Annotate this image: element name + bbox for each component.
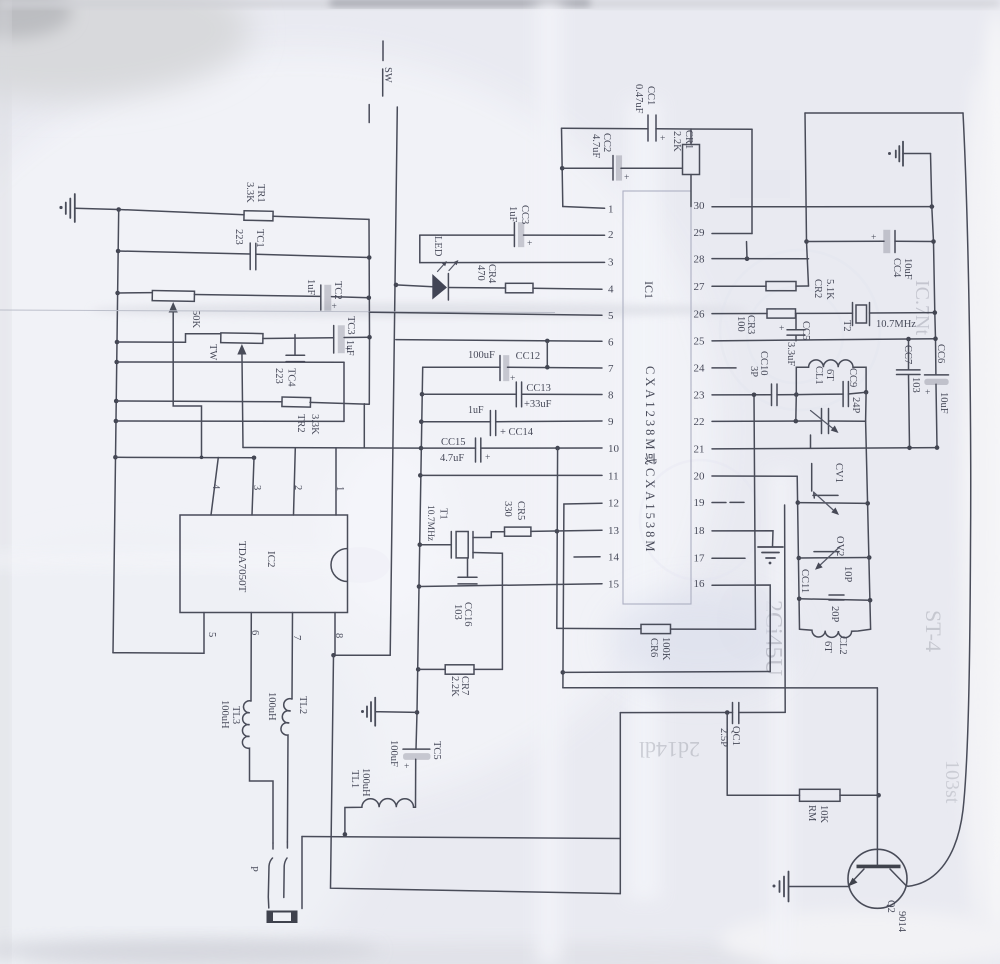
wire pin16 link line y672	[563, 671, 770, 674]
wire pin15 row	[419, 584, 602, 587]
resistor RM 10K	[727, 789, 878, 801]
svg-text:103st: 103st	[941, 760, 963, 804]
wire pin3 row	[420, 261, 605, 263]
wire CR7 row	[418, 668, 502, 670]
svg-text:103: 103	[452, 604, 463, 620]
potentiometer TW body	[221, 333, 263, 344]
ground G5 mid-left	[361, 698, 417, 726]
wire CC15 row	[421, 447, 602, 449]
svg-text:1uF: 1uF	[305, 279, 316, 296]
crystal T2 10.7MHz	[853, 303, 870, 326]
svg-text:TR2: TR2	[295, 414, 306, 433]
svg-text:10uF: 10uF	[902, 258, 913, 280]
node bus row E	[114, 360, 119, 365]
wire pin1 row	[563, 207, 605, 209]
node SW vertical to LED row	[394, 283, 399, 288]
svg-text:1uF: 1uF	[344, 340, 355, 356]
svg-text:+: +	[527, 239, 532, 249]
svg-text:223: 223	[233, 229, 244, 245]
wire pin22 row	[712, 420, 866, 422]
svg-text:10P: 10P	[842, 566, 853, 583]
wire IC2 pin5 lead	[113, 613, 204, 654]
capacitor CC1 0.47uF	[648, 115, 665, 144]
svg-text:TL3: TL3	[230, 706, 241, 724]
switch SW	[369, 41, 383, 123]
wire SW main vertical	[390, 107, 397, 655]
potentiometer 50K wiper arrow	[169, 302, 202, 457]
capacitor CC3 1uF	[514, 223, 532, 250]
svg-text:CC3: CC3	[519, 205, 530, 224]
svg-text:ST-4: ST-4	[921, 610, 946, 652]
wire CC4 row	[807, 240, 934, 242]
resistor TR1 3.3K	[244, 211, 273, 221]
resistor CR3 100	[767, 309, 796, 318]
node 50K tail junction on row G	[200, 456, 204, 460]
svg-text:CR2: CR2	[812, 279, 823, 298]
node riser TC1	[367, 255, 372, 260]
svg-text:10: 10	[608, 443, 620, 455]
faint bleed-through ghosts	[330, 170, 963, 804]
resistor TR2 3.3K	[282, 397, 311, 407]
node vertical B pin16 line tee	[561, 670, 566, 675]
wire CC1 row	[562, 128, 753, 129]
wire CR6 riser to pin23	[754, 395, 756, 630]
svg-text:CXA1238M或CXA1538M: CXA1238M或CXA1538M	[643, 366, 657, 555]
resistor CR6 100K	[557, 624, 756, 633]
wire pin27 row	[712, 285, 809, 287]
node pin23 CR6 riser	[752, 393, 757, 398]
IC1 CXA1238M body	[623, 191, 691, 604]
wire bottom line y836	[302, 837, 620, 839]
svg-text:CC7: CC7	[902, 345, 913, 364]
svg-text:1uF: 1uF	[468, 405, 484, 416]
svg-text:9014: 9014	[896, 911, 907, 933]
wire ground G1 to bus	[75, 208, 119, 209]
ground G1 top-left	[59, 194, 74, 222]
capacitor CC5 3.3uF	[779, 314, 805, 341]
resistor CR4 470	[506, 283, 534, 293]
svg-text:T2: T2	[841, 320, 852, 332]
svg-text:CC13: CC13	[526, 383, 551, 394]
svg-text:+: +	[925, 388, 930, 398]
node x421 pin15	[417, 584, 422, 589]
svg-text:14: 14	[608, 552, 620, 564]
node pin22 CL1 drop	[794, 419, 799, 424]
svg-text:470: 470	[475, 265, 486, 281]
node x421 ground stem	[415, 710, 420, 715]
svg-text:19: 19	[694, 497, 706, 509]
wire pin28 node up to CC4 row	[746, 242, 749, 259]
svg-text:10uF: 10uF	[938, 392, 949, 414]
svg-text:T1: T1	[438, 508, 449, 520]
wire right rail vertical	[931, 154, 938, 448]
capacitor CC13 33uF	[516, 382, 521, 407]
wire IC2 pin7 lead	[291, 613, 294, 700]
node CC4 row left	[804, 239, 809, 244]
svg-text:100uF: 100uF	[388, 740, 399, 767]
wire y687 long line	[563, 687, 877, 689]
svg-text:330: 330	[502, 501, 513, 517]
crystal T1 10.7MHz	[420, 532, 473, 559]
variable capacitor CV2 row1	[813, 492, 839, 515]
wire T1 bottom to CR7 drop	[473, 553, 502, 670]
svg-text:3.3K: 3.3K	[309, 414, 320, 435]
capacitor TC1	[250, 243, 256, 270]
wire CC13 row	[422, 393, 602, 395]
svg-text:P: P	[248, 866, 259, 872]
wire pin26 row	[712, 313, 935, 314]
svg-text:24P: 24P	[850, 397, 861, 414]
svg-text:10K: 10K	[818, 805, 829, 824]
wire H447 horizontal	[243, 447, 421, 450]
svg-text:TDA7050T: TDA7050T	[236, 541, 248, 593]
wire TR2 row	[116, 401, 369, 404]
svg-text:CC11: CC11	[799, 569, 810, 593]
node CC15 row vertical A	[555, 446, 560, 451]
node CC4 row rail	[931, 239, 936, 244]
svg-text:6T: 6T	[822, 641, 833, 653]
wire LED row pin4	[396, 285, 602, 289]
svg-text:TW: TW	[207, 344, 218, 360]
wire pin23 row	[712, 394, 796, 396]
wire pin19 dashes	[712, 501, 744, 503]
svg-text:+: +	[510, 374, 515, 384]
variable capacitor CV1	[811, 409, 839, 434]
node ladder right row2	[867, 555, 872, 560]
svg-text:6T: 6T	[824, 369, 835, 381]
svg-text:+: +	[660, 134, 665, 144]
svg-text:QC1: QC1	[730, 726, 741, 746]
node CC12 right junction	[545, 365, 550, 370]
node bus TC1 row	[116, 249, 121, 254]
earphone plug P	[268, 837, 303, 923]
svg-text:21: 21	[694, 444, 705, 456]
wire vertical A pin10-CR6	[556, 448, 559, 628]
svg-text:OV2: OV2	[834, 536, 845, 556]
potentiometer 50K body	[152, 291, 194, 302]
wire IC2 pin4 lead	[211, 458, 218, 516]
wire pin25 row	[712, 339, 936, 341]
node bus TR2 row	[114, 399, 119, 404]
wire IC2 pin8 lead	[335, 613, 390, 656]
svg-text:CV1: CV1	[833, 463, 844, 483]
svg-text:9: 9	[608, 416, 614, 428]
svg-text:27: 27	[694, 281, 706, 293]
capacitor CC4 10uF	[871, 231, 895, 253]
svg-text:TC2: TC2	[332, 281, 343, 300]
wire CR5 to pin13	[531, 530, 602, 531]
ground G3 pin18	[758, 547, 783, 564]
wire pin2 pin3 left link	[419, 235, 421, 263]
wire pin28 row	[712, 258, 809, 260]
svg-text:100uF: 100uF	[468, 350, 495, 361]
inductor CL1 6T	[796, 360, 866, 395]
svg-text:1: 1	[608, 204, 614, 216]
capacitor CC15 4.7uF	[476, 438, 481, 462]
node pin26 rail	[933, 310, 938, 315]
svg-text:20P: 20P	[829, 606, 840, 623]
svg-text:IC2: IC2	[265, 551, 277, 568]
svg-text:CL2: CL2	[837, 636, 848, 655]
node x421 T1 row	[418, 542, 423, 547]
inductor TL2 100uH	[281, 699, 292, 842]
wire pin20 row	[712, 475, 797, 477]
svg-text:17: 17	[694, 553, 706, 565]
svg-text:3.3K: 3.3K	[244, 182, 255, 203]
svg-text:16: 16	[694, 578, 706, 590]
node pin28 drop	[745, 256, 750, 261]
wire TW row approach	[117, 334, 221, 343]
svg-text:5: 5	[608, 310, 614, 322]
svg-text:26: 26	[694, 309, 706, 321]
svg-text:29: 29	[694, 227, 706, 239]
wire TR1 row	[119, 210, 369, 220]
svg-text:3P: 3P	[748, 366, 759, 377]
node x421 CC13	[420, 392, 425, 397]
svg-text:10.7MHz: 10.7MHz	[425, 505, 435, 541]
wire row E to TR2 row vertical	[343, 362, 345, 421]
wire pin12 row	[564, 502, 602, 505]
capacitor CC16 103	[458, 558, 477, 584]
svg-text:2.2K: 2.2K	[671, 131, 682, 152]
svg-text:+: +	[624, 173, 629, 183]
svg-text:100K: 100K	[660, 637, 671, 661]
svg-text:CR6: CR6	[648, 638, 659, 657]
svg-text:0.47uF: 0.47uF	[633, 84, 644, 114]
svg-text:Q2: Q2	[885, 900, 896, 913]
node pin25 rail	[933, 336, 938, 341]
wire CL1 left drop to pin22	[795, 395, 798, 422]
wire 50K row	[118, 293, 369, 298]
node bus 50K row	[115, 291, 120, 296]
svg-text:18: 18	[694, 525, 706, 537]
resistor CR1 2.2K	[683, 129, 700, 207]
inductor CL2 6T	[800, 629, 871, 638]
node TL1 on bottom wire	[343, 832, 348, 837]
node row G pin3 junction	[252, 456, 257, 461]
node pin6 row CC12 drop	[545, 339, 550, 344]
capacitor CC11 20P row3	[829, 595, 844, 600]
svg-text:3: 3	[608, 257, 614, 269]
svg-text:100: 100	[735, 316, 746, 332]
capacitor TC5 100uF	[403, 749, 430, 772]
wire CC14 row	[421, 420, 602, 423]
wire pin17 stub	[712, 557, 745, 559]
wire IC2 pin6 lead	[250, 613, 252, 702]
wire ladder left vertical	[797, 476, 799, 629]
wire long middle vertical x421	[416, 367, 423, 749]
wire pin11 row	[420, 474, 602, 476]
svg-text:CR4: CR4	[486, 264, 497, 284]
wire TC5 down to TL1	[415, 759, 417, 807]
wire QC1 riser bottom segment	[619, 713, 621, 894]
svg-text:4: 4	[210, 484, 221, 490]
wire top-right rect left edge	[805, 113, 809, 286]
svg-text:TC4: TC4	[286, 368, 297, 387]
ground G2 top-right	[888, 142, 931, 166]
svg-text:12: 12	[608, 498, 619, 510]
wire right riser x369	[368, 219, 371, 404]
wire top-right rect top edge	[805, 112, 963, 114]
node ladder left row3	[797, 597, 802, 602]
node bus row G	[113, 455, 118, 460]
potentiometer TW wiper arrow	[237, 344, 246, 448]
wire TW row to TC3	[263, 337, 370, 338]
svg-text:+: +	[404, 762, 409, 772]
svg-text:10.7MHz: 10.7MHz	[876, 319, 916, 330]
wire TC1 row	[118, 251, 369, 258]
wire TR2 row drop to H447	[363, 404, 365, 448]
svg-text:223: 223	[273, 368, 284, 384]
wire IC2 pin2 lead	[294, 448, 296, 515]
wire pin18 row	[712, 531, 773, 547]
wire row E	[117, 361, 344, 363]
node pin30 rail	[930, 204, 935, 209]
wire CC2 row	[562, 167, 681, 169]
svg-text:+: +	[332, 302, 337, 312]
wire T1 zigzag to CR5	[473, 532, 505, 538]
wire vertical B pin12 down	[563, 504, 564, 688]
wire row G	[115, 456, 254, 459]
svg-text:4.7uF: 4.7uF	[440, 453, 464, 464]
svg-text:+: +	[779, 324, 784, 334]
svg-text:CR1: CR1	[683, 130, 694, 149]
resistor CR5 330	[505, 527, 531, 536]
capacitor CC2 4.7uF	[613, 156, 629, 184]
capacitor CC9 24P	[796, 382, 866, 407]
wire row 421	[116, 420, 344, 422]
wire crease line	[0, 310, 555, 313]
svg-text:2: 2	[608, 229, 614, 241]
svg-text:3: 3	[251, 485, 262, 490]
capacitor CC6 10uF	[925, 375, 949, 398]
svg-text:11: 11	[608, 470, 619, 482]
svg-text:CC4: CC4	[891, 258, 902, 278]
svg-text:CC12: CC12	[516, 351, 541, 362]
inductor TL3 100uH	[242, 701, 273, 843]
svg-text:3.3uF: 3.3uF	[785, 342, 796, 366]
node pin21 rail end	[935, 445, 940, 450]
capacitor TC4	[286, 335, 305, 362]
svg-text:CC15: CC15	[441, 437, 466, 448]
wire pin6 row	[396, 340, 602, 342]
svg-text:25: 25	[694, 336, 706, 348]
node pin8 bottom tee	[331, 653, 336, 658]
svg-text:6: 6	[249, 630, 260, 635]
capacitor TC2	[321, 285, 337, 312]
wire RM drop	[726, 713, 728, 796]
svg-text:20: 20	[694, 471, 706, 483]
svg-text:CC1: CC1	[645, 86, 656, 105]
node x421 pin11	[418, 473, 423, 478]
svg-text:4.7uF: 4.7uF	[590, 134, 601, 158]
svg-text:7: 7	[608, 363, 614, 375]
wire left rail top	[562, 128, 563, 206]
node x421 CC15	[419, 446, 424, 451]
op-amp IC2 TDA7050T body	[180, 515, 348, 613]
resistor CR2 5.1K	[766, 282, 796, 291]
wire pin2 row	[420, 234, 605, 236]
svg-text:+33uF: +33uF	[524, 399, 552, 410]
node QC1 row RM drop	[725, 710, 730, 715]
node riser 50K-TC2 row	[367, 296, 372, 301]
svg-text:SW: SW	[382, 67, 393, 83]
wire ladder row2	[799, 557, 869, 560]
wire ladder row3	[799, 599, 870, 600]
node x421 CR7	[416, 667, 421, 672]
svg-text:8: 8	[608, 390, 614, 402]
node x421 CC14	[419, 419, 424, 424]
svg-text:5: 5	[206, 632, 217, 637]
inductor TL1 100uH	[345, 799, 416, 835]
svg-text:CC5: CC5	[800, 321, 811, 340]
wire pin30 row	[712, 206, 934, 208]
svg-text:22: 22	[694, 416, 705, 428]
svg-text:CL1: CL1	[813, 366, 824, 385]
node bus TW row	[115, 340, 120, 345]
wire ladder row1	[798, 502, 868, 505]
svg-text:100uH: 100uH	[266, 692, 277, 721]
svg-text:CC6: CC6	[935, 344, 946, 363]
capacitor CC14	[490, 411, 495, 436]
svg-text:TC3: TC3	[345, 316, 356, 335]
node ladder right row1	[865, 501, 870, 506]
capacitor CC10 3P	[772, 384, 778, 406]
svg-text:103: 103	[910, 377, 921, 393]
capacitor CC7 103	[897, 339, 921, 448]
svg-text:1uF: 1uF	[507, 206, 518, 223]
node bus row 421	[114, 419, 119, 424]
svg-text:4: 4	[608, 284, 614, 296]
node ladder right row3	[868, 598, 873, 603]
node vertical A CR5 row	[555, 529, 560, 534]
svg-text:TC1: TC1	[254, 229, 265, 248]
wire ladder right vertical	[866, 392, 871, 629]
svg-text:100uH: 100uH	[360, 768, 371, 797]
capacitor CC12 100uF	[500, 356, 515, 385]
svg-text:24: 24	[694, 363, 706, 375]
svg-text:2.2K: 2.2K	[449, 676, 460, 697]
node CC2 row rail	[560, 166, 565, 171]
resistor CR7 2.2K	[445, 665, 474, 674]
svg-text:TL2: TL2	[297, 696, 308, 714]
wire pin21 row	[712, 448, 937, 449]
wire IC2 pin3 lead	[252, 458, 254, 515]
node pin25 CC7 drop	[906, 337, 911, 342]
transistor Q2 9014	[790, 688, 909, 908]
svg-text:23: 23	[694, 390, 706, 402]
wire pin5 row	[369, 312, 602, 315]
svg-text:6: 6	[608, 337, 614, 349]
svg-text:2: 2	[292, 485, 303, 490]
svg-text:1: 1	[334, 486, 345, 491]
wire pin29 row	[712, 233, 752, 235]
wire pin6 row to CC12 row vertical	[546, 341, 548, 367]
svg-text:TC5: TC5	[431, 741, 442, 760]
svg-text:15: 15	[608, 579, 620, 591]
node CL1 left bottom	[794, 392, 799, 397]
svg-text:CR5: CR5	[515, 501, 526, 520]
wire CC1 to pin29 drop	[751, 129, 753, 233]
svg-text:28: 28	[694, 254, 706, 266]
node CC9 right	[864, 390, 869, 395]
svg-text:LED: LED	[432, 236, 443, 257]
LED D1	[432, 260, 458, 300]
node bus top junction	[116, 207, 121, 212]
svg-text:IC1: IC1	[642, 281, 656, 299]
svg-text:+: +	[485, 453, 490, 463]
wire long bottom link from pin8 node down	[331, 655, 621, 893]
